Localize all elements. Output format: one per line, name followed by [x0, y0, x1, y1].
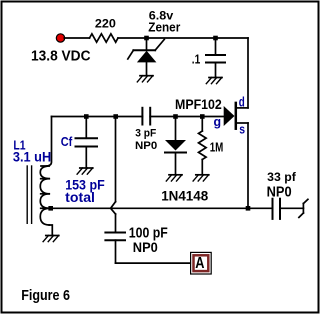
break squiggle (to antenna) — [299, 199, 308, 217]
node 1M junction — [200, 114, 205, 119]
resistor R 220 — [90, 34, 119, 42]
node .1 cap junction — [213, 36, 218, 41]
wire 100pF drop with crossover jog — [111, 117, 115, 233]
wire tank tap (main horizontal) — [49, 207, 272, 209]
inductor L1 (tapped coil) — [40, 117, 52, 236]
ground (Cf) — [77, 168, 93, 174]
svg-text:s: s — [239, 121, 245, 136]
svg-text:NP0: NP0 — [135, 140, 157, 152]
resistor R2 1M — [199, 117, 207, 175]
ground (diode) — [166, 175, 182, 181]
svg-text:MPF102: MPF102 — [175, 97, 222, 112]
terminal 13.8 VDC (red dot) — [56, 34, 64, 42]
node diode junction — [173, 114, 178, 119]
inductor core lines — [27, 166, 31, 223]
transistor Q1 MPF102 (JFET) — [224, 103, 248, 129]
node coil tap — [48, 206, 53, 211]
svg-text:1N4148: 1N4148 — [161, 187, 208, 203]
wire to point A — [116, 262, 191, 264]
svg-text:g: g — [214, 114, 222, 129]
zener diode 6.8v — [128, 38, 165, 76]
svg-text:13.8 VDC: 13.8 VDC — [31, 48, 91, 64]
diode D1 1N4148 — [165, 117, 186, 175]
wire dot to resistor — [64, 37, 89, 39]
wire resistor to top-right corner — [118, 37, 248, 39]
ground (1M) — [193, 175, 209, 181]
svg-text:Cf: Cf — [61, 134, 73, 149]
capacitor Cf — [76, 117, 98, 169]
capacitor .1 — [206, 38, 225, 78]
svg-text:total: total — [65, 190, 95, 205]
wire source rail — [247, 123, 249, 208]
svg-text:1M: 1M — [210, 139, 224, 154]
node A (boxed) — [191, 252, 212, 274]
svg-text:33 pf: 33 pf — [267, 170, 297, 184]
svg-text:NP0: NP0 — [133, 239, 158, 255]
svg-text:3.1 uH: 3.1 uH — [13, 148, 51, 164]
wire top rail of tank (gate side) — [52, 116, 143, 118]
node Cf junction — [84, 114, 89, 119]
ground (zener) — [137, 76, 153, 82]
svg-text:220: 220 — [95, 19, 116, 31]
svg-text:d: d — [239, 94, 245, 109]
svg-text:3 pF: 3 pF — [135, 128, 156, 140]
wire drain rail — [247, 38, 249, 108]
wire gate — [150, 116, 224, 118]
node source junction — [246, 206, 251, 211]
svg-text:.1: .1 — [192, 52, 201, 67]
svg-text:Zener: Zener — [148, 21, 180, 35]
ground (coil bottom) — [43, 236, 59, 242]
capacitor 33 pf NP0 — [273, 199, 304, 219]
svg-text:Figure 6: Figure 6 — [21, 288, 70, 304]
ground (.1 cap) — [206, 78, 222, 84]
capacitor 100 pF NP0 — [105, 233, 125, 264]
svg-text:NP0: NP0 — [267, 185, 292, 201]
node zener junction — [144, 36, 149, 41]
capacitor 3 pF NP0 — [142, 108, 150, 125]
node 100pF junction — [113, 114, 118, 119]
svg-text:A: A — [195, 255, 205, 272]
